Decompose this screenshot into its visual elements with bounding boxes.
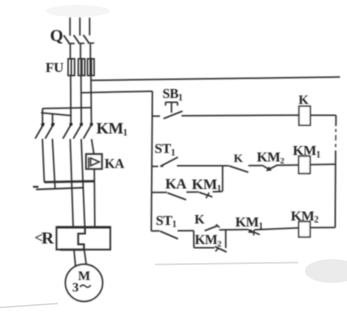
svg-text:K: K <box>195 212 206 227</box>
svg-text:SB1: SB1 <box>163 86 184 102</box>
svg-text:Q: Q <box>50 26 63 45</box>
svg-text:ST1: ST1 <box>155 142 176 157</box>
svg-text:KM1: KM1 <box>235 216 263 231</box>
svg-text:K: K <box>234 151 244 165</box>
svg-text:R: R <box>42 229 55 248</box>
svg-text:KM2: KM2 <box>257 150 284 165</box>
svg-text:KM1: KM1 <box>293 144 321 159</box>
svg-text:KM2: KM2 <box>291 209 319 224</box>
svg-text:KM2: KM2 <box>195 232 221 248</box>
svg-text:KA: KA <box>165 177 187 193</box>
svg-text:ST1: ST1 <box>156 214 177 229</box>
svg-text:FU: FU <box>46 61 64 76</box>
svg-text:KA: KA <box>105 156 125 171</box>
svg-text:KM1: KM1 <box>96 120 128 137</box>
svg-text:KM1: KM1 <box>192 177 222 193</box>
svg-text:K: K <box>299 92 310 107</box>
svg-text:3: 3 <box>72 280 79 295</box>
svg-text:M: M <box>78 268 90 283</box>
